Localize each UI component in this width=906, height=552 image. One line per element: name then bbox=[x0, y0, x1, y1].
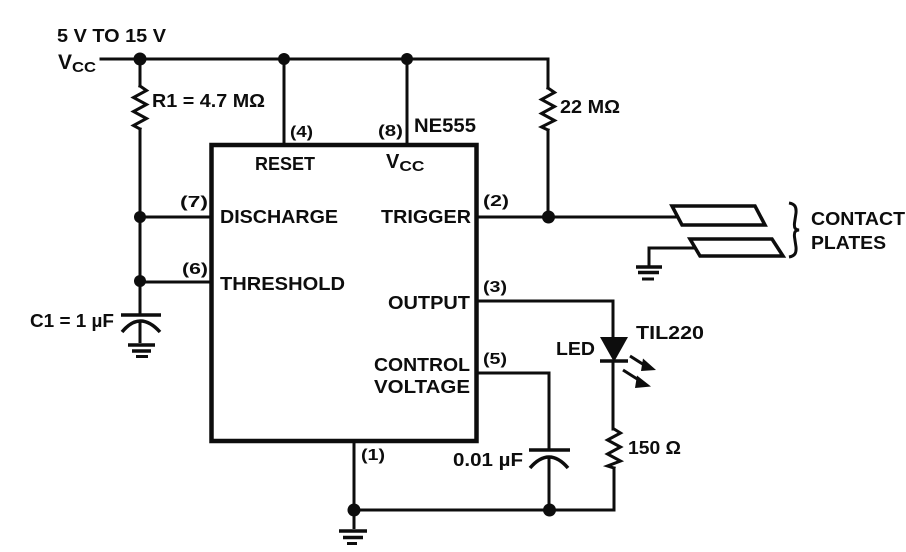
wire LED cathode down bbox=[612, 362, 615, 429]
wire pin 4 bbox=[283, 59, 286, 145]
wire left vertical (R1 to C1) bbox=[139, 129, 142, 315]
svg-text:VCC: VCC bbox=[386, 151, 425, 175]
ground contact plate bbox=[636, 267, 662, 279]
node discharge junction bbox=[134, 211, 146, 223]
capacitor C1 plates bbox=[121, 315, 161, 332]
wire plate 2 to ground bbox=[649, 248, 694, 265]
wire control voltage pin 5 bbox=[477, 373, 549, 450]
svg-text:VOLTAGE: VOLTAGE bbox=[374, 377, 470, 397]
resistor R1 bbox=[134, 86, 147, 129]
svg-text:150 Ω: 150 Ω bbox=[628, 438, 681, 458]
LED D1 triangle bbox=[600, 337, 628, 362]
wire 150 down bbox=[613, 468, 616, 510]
svg-text:NE555: NE555 bbox=[414, 116, 476, 137]
resistor 22M bbox=[542, 88, 555, 130]
wire discharge pin 7 bbox=[140, 216, 211, 219]
svg-text:(2): (2) bbox=[483, 193, 509, 210]
node Vcc junction bbox=[134, 53, 147, 66]
svg-text:0.01 µF: 0.01 µF bbox=[453, 450, 523, 470]
wire Vcc rail bbox=[101, 58, 548, 61]
svg-text:22 MΩ: 22 MΩ bbox=[560, 97, 620, 117]
node trigger junction bbox=[542, 211, 555, 224]
wire trigger pin 2 bbox=[476, 216, 677, 219]
LED cathode bar bbox=[600, 359, 628, 363]
svg-text:(1): (1) bbox=[361, 447, 385, 464]
ground C1 bbox=[128, 345, 155, 357]
capacitor C1 lower lead bbox=[139, 322, 142, 343]
svg-text:PLATES: PLATES bbox=[811, 233, 886, 253]
wire pin 1 bbox=[353, 441, 356, 510]
wire 22M to trigger bbox=[547, 130, 550, 217]
node threshold junction bbox=[134, 275, 146, 287]
LED emission arrow 1 bbox=[630, 356, 656, 371]
wire 22M branch bbox=[547, 59, 550, 88]
svg-text:(8): (8) bbox=[378, 123, 403, 140]
svg-text:(7): (7) bbox=[180, 194, 208, 211]
node pin4 junction bbox=[278, 53, 290, 65]
svg-text:(3): (3) bbox=[483, 279, 507, 296]
svg-text:CONTROL: CONTROL bbox=[374, 355, 470, 375]
svg-text:OUTPUT: OUTPUT bbox=[388, 293, 470, 313]
svg-text:5 V TO 15 V: 5 V TO 15 V bbox=[57, 26, 166, 46]
wire bottom run bbox=[354, 509, 614, 512]
brace contact plates bbox=[789, 203, 799, 257]
wire left vertical (Vcc to R1) bbox=[139, 59, 142, 86]
svg-text:THRESHOLD: THRESHOLD bbox=[220, 274, 345, 294]
contact plate upper bbox=[672, 206, 765, 225]
svg-text:VCC: VCC bbox=[58, 51, 96, 76]
node pin1 junction bbox=[348, 504, 361, 517]
svg-text:RESET: RESET bbox=[255, 154, 315, 174]
resistor 150 bbox=[608, 429, 621, 468]
svg-text:(5): (5) bbox=[483, 351, 507, 368]
svg-text:TRIGGER: TRIGGER bbox=[381, 207, 471, 227]
LED emission arrow 2 bbox=[623, 370, 651, 388]
wire pin 8 bbox=[406, 59, 409, 145]
svg-text:(4): (4) bbox=[290, 124, 313, 141]
contact plate lower bbox=[690, 239, 783, 256]
wire threshold pin 6 bbox=[140, 281, 211, 284]
node pin8 junction bbox=[401, 53, 413, 65]
capacitor 0.01uF lower lead bbox=[548, 460, 551, 510]
svg-text:(6): (6) bbox=[182, 261, 208, 278]
svg-text:CONTACT: CONTACT bbox=[811, 209, 905, 229]
node cap junction bbox=[543, 504, 556, 517]
ground pin1 bbox=[339, 510, 367, 544]
op-amp U1 NE555 box bbox=[212, 145, 477, 441]
capacitor 0.01uF plates bbox=[529, 450, 570, 468]
svg-text:DISCHARGE: DISCHARGE bbox=[220, 207, 338, 227]
svg-text:LED: LED bbox=[556, 339, 595, 359]
svg-text:R1 = 4.7 MΩ: R1 = 4.7 MΩ bbox=[152, 91, 265, 111]
svg-text:C1 = 1 µF: C1 = 1 µF bbox=[30, 311, 114, 331]
wire output pin 3 bbox=[477, 301, 613, 337]
svg-text:TIL220: TIL220 bbox=[636, 323, 704, 343]
